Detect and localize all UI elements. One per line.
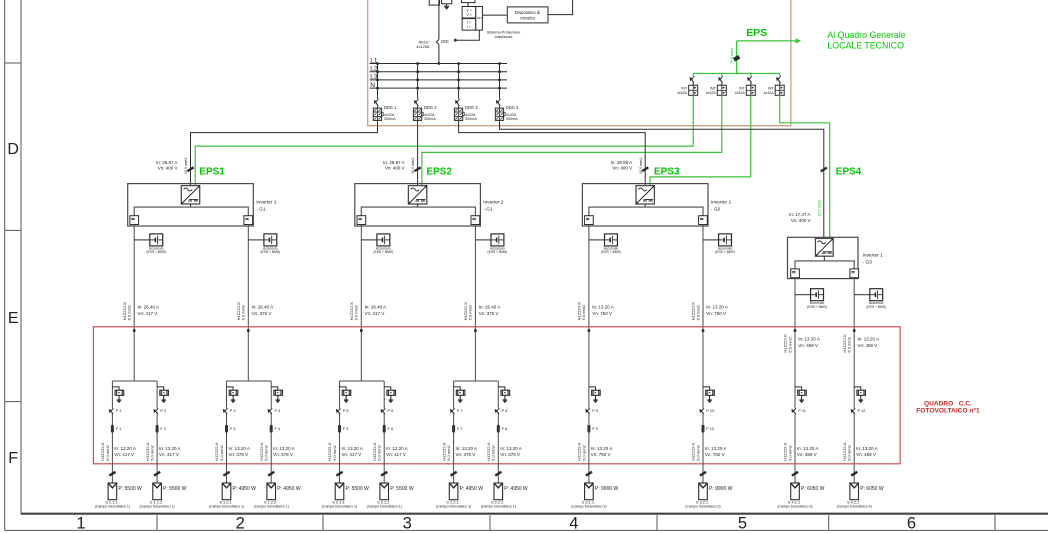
svg-text:(ESS + BMS): (ESS + BMS) xyxy=(715,250,735,254)
SPI relay U1 frequency element f> f< xyxy=(462,19,476,31)
svg-text:P: 5500 W: P: 5500 W xyxy=(118,486,142,492)
string line S4 xyxy=(270,381,272,483)
svg-text:N: N xyxy=(370,82,375,89)
EPS outgoing line with arrow xyxy=(737,40,796,42)
svg-text:In: 26.40 A: In: 26.40 A xyxy=(479,305,501,310)
svg-text:6.0 mm2: 6.0 mm2 xyxy=(581,304,586,320)
inverter internal DC bus xyxy=(361,207,475,216)
svg-text:P 8: P 8 xyxy=(502,408,508,413)
battery storage unit G3 left xyxy=(795,294,811,296)
EPS green bus xyxy=(693,73,780,75)
DC wire right xyxy=(702,224,704,381)
cable marker string 3 xyxy=(223,472,229,476)
svg-text:Inverter 1: Inverter 1 xyxy=(711,199,732,205)
string line S8 xyxy=(497,381,499,483)
circuit breaker DDG 1 xyxy=(377,64,379,99)
inverter unit Inverter 1 - G2 outer box xyxy=(582,184,708,226)
surge arrester string 3 xyxy=(227,387,234,390)
svg-text:In: 28.87 A: In: 28.87 A xyxy=(383,160,405,165)
drawing frame left border xyxy=(4,0,6,530)
svg-text:In: 13.20 A: In: 13.20 A xyxy=(500,446,522,451)
wire to SPI relay xyxy=(467,3,469,7)
svg-text:- G3: - G3 xyxy=(863,259,873,265)
surge arrester string 12 xyxy=(854,387,861,390)
svg-text:rincalzo: rincalzo xyxy=(520,16,535,21)
inverter unit Inverter 1 - G1 outer box xyxy=(128,184,254,226)
svg-text:F 1: F 1 xyxy=(116,426,122,431)
svg-text:F 9: F 9 xyxy=(592,426,598,431)
svg-text:Vn: 400 V: Vn: 400 V xyxy=(612,166,632,171)
fuse F 4 xyxy=(270,425,273,433)
svg-text:(Campo fotovoltaico 3): (Campo fotovoltaico 3) xyxy=(777,505,812,509)
svg-text:In: 13.20 A: In: 13.20 A xyxy=(705,446,727,451)
svg-text:10.0 mm2: 10.0 mm2 xyxy=(411,158,415,174)
DC terminal right xyxy=(699,216,708,225)
svg-text:P 4: P 4 xyxy=(275,408,282,413)
svg-text:(ESS + BMS): (ESS + BMS) xyxy=(146,250,166,254)
switch P 12 xyxy=(853,409,855,414)
svg-text:Vn: 750 V: Vn: 750 V xyxy=(705,452,725,457)
svg-text:6.0 mm2: 6.0 mm2 xyxy=(695,444,700,460)
DC terminal right xyxy=(244,216,253,225)
cable marker EPS2 feed xyxy=(415,167,421,171)
svg-text:10.0 mm2: 10.0 mm2 xyxy=(639,158,643,174)
wire inverter G3 to internal bus xyxy=(823,256,825,261)
svg-text:6.0 mm2: 6.0 mm2 xyxy=(241,304,246,320)
svg-text:P 7: P 7 xyxy=(457,408,463,413)
svg-text:- G1: - G1 xyxy=(483,206,493,212)
svg-text:(Campo fotovoltaico 2): (Campo fotovoltaico 2) xyxy=(571,505,606,509)
svg-text:DDG 2: DDG 2 xyxy=(424,105,437,110)
junction terminal at quadro entry xyxy=(853,329,856,332)
SPI trip wire to DDI xyxy=(457,30,480,40)
svg-text:Vn: 375 V: Vn: 375 V xyxy=(456,452,476,457)
svg-text:Vn: 417 V: Vn: 417 V xyxy=(138,311,158,316)
svg-text:10.0 mm2: 10.0 mm2 xyxy=(817,200,821,216)
svg-text:P: 5500 W: P: 5500 W xyxy=(346,486,370,492)
svg-text:(ESS + BMS): (ESS + BMS) xyxy=(373,250,393,254)
junction terminal at quadro entry xyxy=(474,329,477,332)
bus tap junctions DDG 2 xyxy=(416,62,418,64)
svg-text:In: 28.87 A: In: 28.87 A xyxy=(156,160,178,165)
bus line L2 xyxy=(370,71,508,73)
svg-text:6.0 mm2: 6.0 mm2 xyxy=(150,444,155,460)
photovoltaic panel S 2.2.1 xyxy=(449,483,458,500)
inverter unit Inverter 2 - G1 outer box xyxy=(355,184,481,226)
svg-text:Vn: 417 V: Vn: 417 V xyxy=(341,452,361,457)
switch P 11 xyxy=(794,409,796,414)
svg-text:Vn: 459 V: Vn: 459 V xyxy=(856,452,876,457)
svg-text:P: 5500 W: P: 5500 W xyxy=(390,486,414,492)
svg-text:300mA: 300mA xyxy=(506,117,518,121)
svg-text:EPS4: EPS4 xyxy=(836,167,862,178)
wire EPS2 green feeder xyxy=(422,95,722,186)
bus line L3 xyxy=(370,79,508,81)
svg-text:(ESS + BMS): (ESS + BMS) xyxy=(807,305,827,309)
wire DDG2 to inverter 2 xyxy=(417,120,419,185)
svg-text:4: 4 xyxy=(569,515,578,533)
main incoming wire xyxy=(438,0,440,39)
switch INT 2 4x32A xyxy=(721,74,723,76)
svg-text:6.0 mm2: 6.0 mm2 xyxy=(695,304,700,320)
surge arrester string 10 xyxy=(703,387,710,390)
string line S5 xyxy=(339,381,341,483)
battery storage unit (left) xyxy=(361,239,377,241)
svg-text:EPS1: EPS1 xyxy=(199,167,225,178)
DC switchboard boundary QUADRO C.C. FOTOVOLTAICO n.1 (red box) xyxy=(93,327,900,464)
svg-text:F 4: F 4 xyxy=(275,426,281,431)
fuse F 9 xyxy=(587,425,590,433)
string line S12 xyxy=(853,482,855,484)
svg-text:Vn: 750 V: Vn: 750 V xyxy=(592,311,612,316)
svg-text:In: 13.20 A: In: 13.20 A xyxy=(386,446,408,451)
svg-text:300mA: 300mA xyxy=(465,117,477,121)
svg-text:P 3: P 3 xyxy=(230,408,236,413)
wire EPS1 green feeder xyxy=(195,95,693,186)
interface switch DDI xyxy=(436,39,439,44)
svg-text:6.0 mm2: 6.0 mm2 xyxy=(847,444,852,460)
fuse F 7 xyxy=(452,425,455,433)
photovoltaic panel S 1.2.1 xyxy=(222,483,231,500)
ground xyxy=(446,4,448,6)
svg-text:Vn: 459 V: Vn: 459 V xyxy=(858,343,878,348)
svg-text:300mA: 300mA xyxy=(384,117,396,121)
cable marker EPS feeder xyxy=(734,57,739,60)
photovoltaic panel S 1.1.1 xyxy=(108,483,117,500)
svg-text:FOTOVOLTAICO n°1: FOTOVOLTAICO n°1 xyxy=(916,407,980,415)
svg-text:F: F xyxy=(8,450,18,467)
svg-text:DDI: DDI xyxy=(441,39,448,44)
DC terminal left xyxy=(130,216,139,225)
photovoltaic panel S 4.1.1 xyxy=(791,483,800,500)
photovoltaic panel S 2.1.1 xyxy=(335,483,344,500)
DC wire left xyxy=(133,224,135,381)
svg-text:(Campo fotovoltaico 1): (Campo fotovoltaico 1) xyxy=(139,505,174,509)
DC terminal left xyxy=(585,216,594,225)
svg-text:(Campo fotovoltaico 4): (Campo fotovoltaico 4) xyxy=(837,505,872,509)
svg-text:Vn: 459 V: Vn: 459 V xyxy=(797,452,817,457)
svg-text:Vn: 375 V: Vn: 375 V xyxy=(228,452,248,457)
svg-text:6: 6 xyxy=(907,515,916,533)
inverter internal DC bus xyxy=(589,207,703,216)
svg-text:6.0 mm2: 6.0 mm2 xyxy=(105,444,110,460)
surge arrester string 11 xyxy=(795,387,802,390)
cable marker string 1 xyxy=(109,472,115,476)
DC wire left xyxy=(588,224,590,381)
wire from Dispositivo di rincalzo upward xyxy=(548,0,573,15)
string line S2 xyxy=(156,381,158,483)
string line S9 xyxy=(588,381,590,483)
svg-text:P 6: P 6 xyxy=(388,408,394,413)
svg-text:Inverter 2: Inverter 2 xyxy=(483,199,504,205)
svg-text:300mA: 300mA xyxy=(424,117,436,121)
battery storage unit G3 right xyxy=(854,294,870,296)
surge arrester string 9 xyxy=(589,387,596,390)
svg-text:10.0 mm2: 10.0 mm2 xyxy=(184,158,188,174)
circuit breaker DDG 2 xyxy=(417,64,419,99)
string line S6 xyxy=(383,381,385,483)
svg-text:In: 13.20 A: In: 13.20 A xyxy=(114,446,136,451)
svg-text:(Campo fotovoltaico 2): (Campo fotovoltaico 2) xyxy=(685,505,720,509)
svg-text:(ESS + BMS): (ESS + BMS) xyxy=(260,250,280,254)
svg-text:Vn: 417 V: Vn: 417 V xyxy=(365,311,385,316)
svg-text:P: 4950 W: P: 4950 W xyxy=(233,486,257,492)
svg-text:Vn: 375 V: Vn: 375 V xyxy=(500,452,520,457)
svg-text:6.0 mm2: 6.0 mm2 xyxy=(219,444,224,460)
svg-text:(ESS + BMS): (ESS + BMS) xyxy=(601,250,621,254)
DC wire right G3 xyxy=(853,277,855,483)
svg-text:Vn: 750 V: Vn: 750 V xyxy=(591,452,611,457)
circuit breaker DDG 3 xyxy=(458,64,460,99)
inverter unit Inverter 1 - G3 outer box xyxy=(788,237,859,278)
fuse F 6 xyxy=(383,425,386,433)
svg-text:In: 13.20 A: In: 13.20 A xyxy=(858,337,880,342)
svg-text:6.0 mm2: 6.0 mm2 xyxy=(127,304,132,320)
DC terminal left G3 xyxy=(791,269,800,278)
svg-text:F 6: F 6 xyxy=(388,426,394,431)
DC wire left G3 xyxy=(794,277,796,483)
bus tap junctions DDG 1 xyxy=(376,62,378,64)
surge arrester string 4 xyxy=(271,387,278,390)
inverter internal DC bus xyxy=(134,207,248,216)
svg-text:(ESS + BMS): (ESS + BMS) xyxy=(866,305,886,309)
svg-text:f >: f > xyxy=(467,21,471,25)
wire inverter to internal bus xyxy=(417,204,419,207)
svg-text:SPI: SPI xyxy=(477,16,482,20)
svg-text:In: 28.58 A: In: 28.58 A xyxy=(611,160,633,165)
junction terminal at quadro entry xyxy=(702,329,705,332)
cable marker string 7 xyxy=(451,472,457,476)
junction main drop on L1 xyxy=(438,62,440,64)
junction terminal at quadro entry xyxy=(360,329,363,332)
inverter G3 internal DC bus xyxy=(795,261,854,269)
svg-text:P: 4950 W: P: 4950 W xyxy=(277,486,301,492)
wire inverter to internal bus xyxy=(644,204,646,207)
svg-text:P: 9900 W: P: 9900 W xyxy=(595,486,619,492)
string split bar for P5/P6 xyxy=(340,380,385,382)
wire DDG4 to inverter 4 xyxy=(500,120,824,238)
cable marker string 6 xyxy=(381,472,387,476)
svg-text:P 1: P 1 xyxy=(116,408,122,413)
fuse F 3 xyxy=(225,425,228,433)
bus tap junctions DDG 3 xyxy=(457,62,459,64)
svg-text:6.0 mm2: 6.0 mm2 xyxy=(354,304,359,320)
svg-text:Vn: 375 V: Vn: 375 V xyxy=(479,311,499,316)
string split bar for P1/P2 xyxy=(112,380,157,382)
svg-text:In: 13.20 A: In: 13.20 A xyxy=(341,446,363,451)
cable marker EPS3 feed xyxy=(642,167,648,171)
svg-text:In: 26.40 A: In: 26.40 A xyxy=(365,305,387,310)
svg-text:P 10: P 10 xyxy=(706,408,715,413)
cable marker string 4 xyxy=(268,472,274,476)
switch P 5 xyxy=(339,409,341,414)
svg-text:P 9: P 9 xyxy=(592,408,598,413)
svg-text:EPS: EPS xyxy=(746,27,767,39)
svg-text:(ESS + BMS): (ESS + BMS) xyxy=(488,250,508,254)
wire EPS3 green feeder xyxy=(650,95,751,186)
bus line N xyxy=(370,87,508,89)
svg-text:V <: V < xyxy=(466,13,471,17)
switch P 7 xyxy=(453,409,455,414)
svg-text:5: 5 xyxy=(738,515,747,533)
svg-text:Al Quadro Generale: Al Quadro Generale xyxy=(827,30,905,40)
svg-text:Vn: 400 V: Vn: 400 V xyxy=(385,166,405,171)
svg-text:F 3: F 3 xyxy=(230,426,236,431)
svg-text:Inverter 1: Inverter 1 xyxy=(256,199,277,205)
svg-text:Dispositivo di: Dispositivo di xyxy=(515,10,540,15)
DC wire left xyxy=(360,224,362,381)
voltage transformer with ground (cut off) xyxy=(442,0,452,4)
svg-text:DDG 3: DDG 3 xyxy=(465,105,478,110)
switch P 6 xyxy=(383,409,385,414)
svg-text:6.0 mm2: 6.0 mm2 xyxy=(377,444,382,460)
svg-text:F 2: F 2 xyxy=(160,426,166,431)
cable marker EPS4 feed xyxy=(821,168,827,172)
wire EPS4 green feeder xyxy=(780,95,830,238)
svg-text:In: 13.20 A: In: 13.20 A xyxy=(797,446,819,451)
surge arrester string 5 xyxy=(340,387,347,390)
string split bar for P7/P8 xyxy=(454,380,499,382)
svg-text:6.0 mm2: 6.0 mm2 xyxy=(446,444,451,460)
svg-text:F 5: F 5 xyxy=(343,426,349,431)
junction terminal at quadro entry xyxy=(133,329,136,332)
DC terminal left xyxy=(357,216,366,225)
DC terminal right G3 xyxy=(850,269,859,278)
svg-text:(Campo fotovoltaico 1): (Campo fotovoltaico 1) xyxy=(254,505,289,509)
fuse F 5 xyxy=(338,425,341,433)
cable marker string 11 xyxy=(792,472,798,476)
svg-text:- G1: - G1 xyxy=(256,206,266,212)
switch INT 1 4x32A xyxy=(692,74,694,76)
svg-text:In: 17.47 A: In: 17.47 A xyxy=(789,212,811,217)
switch P 9 xyxy=(588,409,590,414)
cable marker string 9 xyxy=(586,472,592,476)
svg-text:LOCALE TECNICO: LOCALE TECNICO xyxy=(827,40,904,50)
DC terminal right xyxy=(471,216,480,225)
svg-text:In: 13.20 A: In: 13.20 A xyxy=(456,446,478,451)
svg-text:P 12: P 12 xyxy=(858,408,866,413)
inverter DC/AC converter symbol - G3 xyxy=(815,238,833,256)
battery storage unit (right) xyxy=(475,239,491,241)
svg-text:70.0 mm2: 70.0 mm2 xyxy=(730,48,734,64)
cable marker EPS1 feed xyxy=(187,167,193,171)
string split bar for P3/P4 xyxy=(227,380,272,382)
EPS feeder riser xyxy=(736,41,738,74)
wire SPI to Dispositivo di rincalzo xyxy=(482,14,507,16)
svg-text:D: D xyxy=(7,141,19,158)
SPI output block xyxy=(476,7,483,31)
switch P 2 xyxy=(156,409,158,414)
svg-text:In: 13.20 A: In: 13.20 A xyxy=(592,305,614,310)
photovoltaic panel S 1.2.2 xyxy=(267,483,276,500)
svg-text:F 7: F 7 xyxy=(457,426,463,431)
svg-text:F 8: F 8 xyxy=(502,426,508,431)
svg-text:P 5: P 5 xyxy=(343,408,349,413)
switch P 10 xyxy=(702,409,704,414)
fuse F 8 xyxy=(497,425,500,433)
svg-text:6.0 mm2: 6.0 mm2 xyxy=(847,336,852,352)
string line S1 xyxy=(111,381,113,483)
svg-text:In: 13.20 A: In: 13.20 A xyxy=(228,446,250,451)
measurement transformer (cut off at top) xyxy=(429,0,439,5)
svg-text:QUADRO C.C.: QUADRO C.C. xyxy=(924,400,972,407)
switch P 3 xyxy=(226,409,228,414)
drawing frame bottom border xyxy=(21,513,1048,515)
inverter DC/AC converter symbol - G2 xyxy=(636,186,654,204)
SPI relay U1 voltage element V> V< xyxy=(462,7,476,19)
photovoltaic panel S 2.2.2 xyxy=(494,483,503,500)
inverter DC/AC converter symbol - G1 xyxy=(408,186,426,204)
svg-text:V >: V > xyxy=(466,9,471,13)
svg-text:P: 4950 W: P: 4950 W xyxy=(504,486,528,492)
switch P 4 xyxy=(270,409,272,414)
svg-text:In: 13.20 A: In: 13.20 A xyxy=(856,446,878,451)
junction terminal at quadro entry xyxy=(794,329,797,332)
string line S7 xyxy=(453,381,455,483)
svg-text:Vn: 459 V: Vn: 459 V xyxy=(798,343,818,348)
fuse F 2 xyxy=(156,425,159,433)
wire inverter to internal bus xyxy=(190,204,192,207)
switch INT 4 4x32A xyxy=(779,74,781,76)
svg-text:2: 2 xyxy=(236,515,245,533)
svg-text:In: 13.20 A: In: 13.20 A xyxy=(159,446,181,451)
svg-text:3: 3 xyxy=(403,515,412,533)
svg-text:In: 13.20 A: In: 13.20 A xyxy=(798,337,820,342)
junction terminal at quadro entry xyxy=(247,329,250,332)
svg-text:P: 6050 W: P: 6050 W xyxy=(860,486,884,492)
battery storage unit (right) xyxy=(703,239,719,241)
photovoltaic panel S 3.1.1 xyxy=(585,483,594,500)
svg-text:Vn: 375 V: Vn: 375 V xyxy=(273,452,293,457)
svg-text:6.0 mm2: 6.0 mm2 xyxy=(468,304,473,320)
bus line L1 xyxy=(370,63,508,65)
svg-text:6.0 mm2: 6.0 mm2 xyxy=(787,444,792,460)
fuse F 10 xyxy=(702,425,705,433)
battery storage unit (left) xyxy=(134,239,150,241)
switch P 8 xyxy=(498,409,500,414)
svg-text:(Campo fotovoltaico 1): (Campo fotovoltaico 1) xyxy=(436,505,471,509)
svg-text:f <: f < xyxy=(467,25,471,29)
svg-text:6.0 mm2: 6.0 mm2 xyxy=(332,444,337,460)
surge arrester string 1 xyxy=(112,387,119,390)
svg-text:DDG 1: DDG 1 xyxy=(384,105,397,110)
svg-text:1: 1 xyxy=(76,515,85,533)
DC wire right xyxy=(247,224,249,381)
surge arrester string 8 xyxy=(498,387,505,390)
svg-text:(Campo fotovoltaico 1): (Campo fotovoltaico 1) xyxy=(367,505,402,509)
svg-text:P: 4950 W: P: 4950 W xyxy=(460,486,484,492)
svg-text:Inverter 1: Inverter 1 xyxy=(863,252,884,258)
photovoltaic panel S 3.2.1 xyxy=(699,483,708,500)
svg-text:4x32A: 4x32A xyxy=(706,91,717,95)
string line S3 xyxy=(226,381,228,483)
svg-text:E: E xyxy=(8,310,19,327)
inverter DC/AC converter symbol - G1 xyxy=(181,186,199,204)
wire DDG1 to inverter 1 xyxy=(191,120,378,185)
photovoltaic panel S 4.2.1 xyxy=(850,483,859,500)
fuse F 1 xyxy=(111,425,114,433)
svg-text:P: 9900 W: P: 9900 W xyxy=(709,486,733,492)
cable marker string 12 xyxy=(851,472,857,476)
svg-text:In: 13.20 A: In: 13.20 A xyxy=(706,305,728,310)
svg-text:4x32A: 4x32A xyxy=(677,91,688,95)
svg-text:P 11: P 11 xyxy=(798,408,806,413)
svg-text:P 2: P 2 xyxy=(160,408,166,413)
junction terminal at quadro entry xyxy=(588,329,591,332)
svg-text:Vn: 400 V: Vn: 400 V xyxy=(791,218,811,223)
svg-text:4x32A: 4x32A xyxy=(735,91,746,95)
svg-text:Interfaccia: Interfaccia xyxy=(495,34,514,39)
